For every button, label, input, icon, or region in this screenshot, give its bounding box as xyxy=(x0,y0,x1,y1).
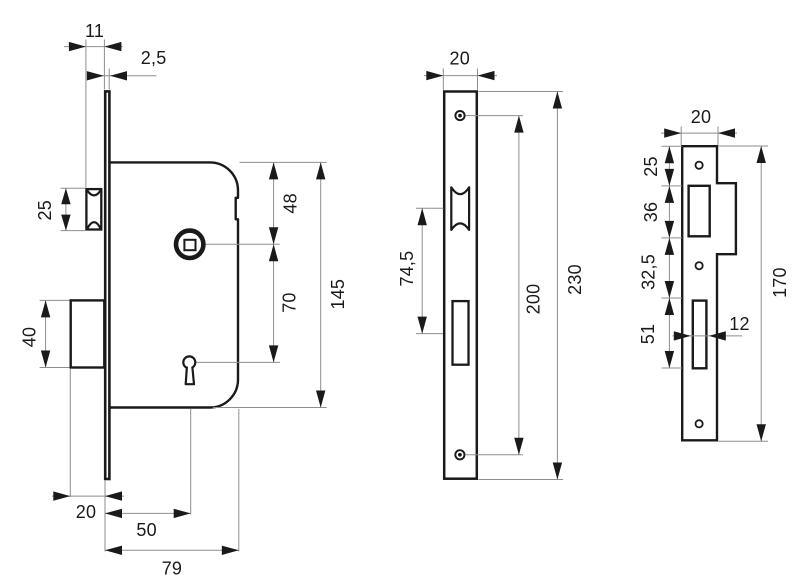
dimension 20 arrow left-pointing xyxy=(478,71,495,80)
svg-text:48: 48 xyxy=(281,193,301,213)
strike latch cutout xyxy=(689,186,710,237)
dimension 50 line xyxy=(105,512,191,514)
dimension 2,5 arrow right-pointing xyxy=(87,71,104,80)
dimension 230 line xyxy=(556,92,558,480)
chain dimension line xyxy=(668,146,670,368)
latch bolt top bevel arc xyxy=(87,190,101,196)
extension line body right edge vertical xyxy=(238,409,240,552)
dimension 20 line (bottom left) xyxy=(52,495,124,497)
dimension 2,5 extension line xyxy=(108,69,110,90)
faceplate front outline xyxy=(444,92,477,479)
svg-text:25: 25 xyxy=(641,156,661,176)
dimension 2,5 line xyxy=(90,75,156,77)
dimension 20 arrow left-pointing xyxy=(718,128,735,137)
dimension 20 line (middle) xyxy=(424,75,497,77)
dimension 200 line xyxy=(518,116,520,455)
svg-text:70: 70 xyxy=(280,292,300,312)
svg-text:12: 12 xyxy=(729,314,749,334)
keyhole centre extension line xyxy=(197,361,281,363)
lock body outline xyxy=(110,162,238,407)
strike plate middle screw hole xyxy=(696,262,703,269)
dimension 40 arrow down xyxy=(41,351,50,368)
dimension 79 arrow right-pointing xyxy=(222,546,239,555)
dimension 48 arrow down xyxy=(269,227,278,244)
strike deadbolt cutout xyxy=(693,301,707,369)
spindle hub square xyxy=(184,240,195,250)
top screw hole xyxy=(455,111,464,120)
dimension 170 arrow up xyxy=(757,146,766,163)
spindle hub ring xyxy=(176,231,203,258)
dimension 2,5 arrow left-pointing xyxy=(110,71,127,80)
dimension 20 line (right view) xyxy=(661,132,737,134)
dimension 230 extension lines xyxy=(479,91,564,93)
svg-text:230: 230 xyxy=(565,264,585,295)
svg-text:170: 170 xyxy=(770,267,790,298)
svg-text:74,5: 74,5 xyxy=(397,251,417,287)
dimension 51 arrow up xyxy=(665,298,674,315)
keyhole stem xyxy=(186,367,194,385)
dimension 48 arrow up xyxy=(269,162,278,179)
svg-text:20: 20 xyxy=(449,49,469,69)
dimension 51 arrow down xyxy=(665,351,674,368)
latch cutout (front) xyxy=(451,187,469,230)
dimension 200 arrow down xyxy=(514,438,523,455)
dimension 79 arrow left-pointing xyxy=(105,546,122,555)
strike plate bottom screw hole xyxy=(696,420,703,427)
svg-text:11: 11 xyxy=(85,21,104,41)
dimension 79 line xyxy=(105,549,239,551)
svg-text:20: 20 xyxy=(76,502,96,522)
svg-text:51: 51 xyxy=(638,324,658,344)
dimension 20 arrow left-pointing xyxy=(105,491,122,500)
dimension 20 arrow right-pointing xyxy=(53,491,70,500)
dimension 25 arrow down xyxy=(665,169,674,186)
svg-text:40: 40 xyxy=(20,327,40,347)
dimension 230 arrow down xyxy=(553,463,562,480)
dimension 20 extension lines (middle) xyxy=(442,69,444,91)
dimension 170 line xyxy=(760,146,762,441)
dimension 170 arrow down xyxy=(757,424,766,441)
dimension 145 arrow up xyxy=(316,162,325,179)
dimension 74,5 arrow up xyxy=(418,208,427,225)
svg-text:50: 50 xyxy=(136,520,156,540)
keyhole circle xyxy=(183,356,195,368)
svg-text:25: 25 xyxy=(35,200,55,220)
dimension 200 arrow up xyxy=(514,116,523,133)
dimension 11 extension lines xyxy=(85,40,87,188)
dimension 145 arrow down xyxy=(316,391,325,408)
dimension 74,5 extension lines xyxy=(416,207,444,209)
dimension 25 arrow down xyxy=(61,215,70,231)
dimension 25 line xyxy=(65,188,67,230)
dimension 25 arrow up xyxy=(665,146,674,163)
extension line keyhole centre vertical xyxy=(190,409,192,515)
dimension 200 extension lines xyxy=(465,115,523,117)
svg-text:36: 36 xyxy=(641,202,661,222)
dimension 48/70 line xyxy=(273,162,275,362)
dimension 40 arrow up xyxy=(41,300,50,317)
dimension 170 extension lines xyxy=(719,145,769,147)
dimension 20 arrow right-pointing xyxy=(664,128,681,137)
dimension 145 line xyxy=(320,162,322,407)
dimension 32,5 arrow up xyxy=(665,238,674,255)
dimension 12 arrow right-pointing xyxy=(674,331,691,340)
body top extension line xyxy=(240,161,327,163)
deadbolt (side view) xyxy=(71,300,105,367)
svg-text:200: 200 xyxy=(524,284,544,315)
dimension 70 arrow up xyxy=(269,244,278,261)
chain extension lines xyxy=(662,145,683,147)
dimension 74,5 line xyxy=(421,208,423,333)
dimension 36 arrow up xyxy=(665,186,674,203)
dimension 36 arrow down xyxy=(665,221,674,238)
body bottom extension line xyxy=(213,407,327,409)
dimension 40 line xyxy=(45,300,47,367)
svg-text:32,5: 32,5 xyxy=(639,254,659,290)
dimension 50 arrow left-pointing xyxy=(105,509,122,518)
dimension 12 arrow left-pointing xyxy=(709,331,726,340)
dimension 11 line xyxy=(64,46,123,48)
strike plate top screw hole xyxy=(696,162,703,169)
dimension 11 arrow right-pointing xyxy=(69,42,86,51)
faceplate (side view, 2.5mm thick) xyxy=(105,91,109,479)
extension line deadbolt left edge xyxy=(69,369,71,497)
dimension 50 arrow right-pointing xyxy=(174,509,191,518)
latch bolt (side view) xyxy=(86,189,101,229)
svg-text:2,5: 2,5 xyxy=(141,48,167,68)
dimension 74,5 arrow down xyxy=(418,317,427,334)
strike plate outline with tab xyxy=(682,146,736,440)
dimension 12 line xyxy=(673,335,743,337)
dimension 25 arrow up xyxy=(61,188,70,204)
svg-text:79: 79 xyxy=(162,559,182,579)
latch bolt bottom bevel arc xyxy=(87,222,101,230)
svg-text:145: 145 xyxy=(328,279,348,310)
dimension 230 arrow up xyxy=(553,92,562,109)
dimension 32,5 arrow down xyxy=(665,281,674,298)
dimension 70 arrow down xyxy=(269,345,278,362)
dimension 25 extension lines xyxy=(61,187,86,189)
extension line faceplate left edge xyxy=(104,481,106,552)
hub centre extension line xyxy=(206,243,280,245)
bottom screw hole xyxy=(455,450,464,459)
dimension 40 extension lines xyxy=(40,299,70,301)
svg-text:20: 20 xyxy=(691,107,711,127)
dimension 20 arrow right-pointing xyxy=(426,71,443,80)
deadbolt cutout (front) xyxy=(453,301,469,365)
dimension 11 arrow left-pointing xyxy=(104,42,121,51)
dimension 20 extension lines (right view) xyxy=(680,127,682,146)
